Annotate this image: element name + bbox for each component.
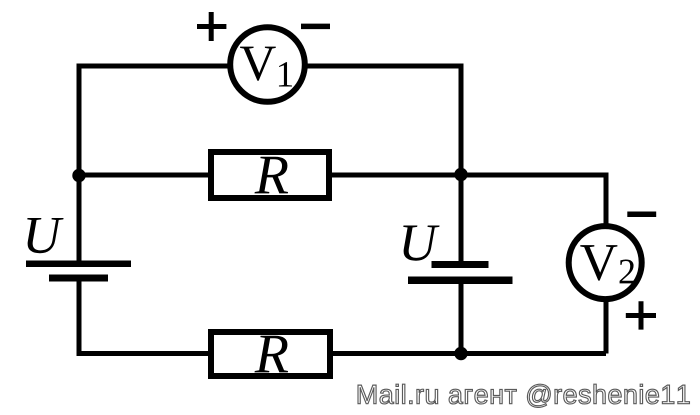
junction node left (middle wire meets left vertical) [72, 169, 85, 182]
battery U (left) short negative plate [49, 275, 108, 282]
minus sign at V1 [301, 24, 330, 30]
wire right battery to bottom wire [459, 280, 464, 354]
voltmeter V2 label V [580, 245, 617, 281]
wire top loop: left vertical, top wire, right vertical [79, 66, 461, 265]
voltmeter V2 label subscript 2 [620, 260, 634, 284]
plus sign at V1 [197, 12, 226, 41]
wire left battery to bottom wire [79, 278, 606, 354]
voltmeter V1 label V [240, 47, 276, 81]
resistor R1 (middle) label R [255, 157, 289, 194]
voltmeter V1 label subscript 1 [279, 62, 292, 86]
battery U (left) label [27, 218, 63, 253]
resistor R2 (bottom) body [211, 332, 330, 376]
watermark Mail.ru agent @reshenie11 [358, 384, 689, 407]
voltmeter V1 circle [230, 27, 305, 102]
battery U (right) short negative plate [432, 261, 489, 268]
junction node bottom (bottom wire meets right vertical) [454, 347, 467, 360]
wire middle row and V2 branch [79, 175, 606, 354]
resistor R1 (middle) body [211, 152, 329, 198]
junction node right (middle wire meets right vertical) [454, 168, 467, 181]
battery U (right) long positive plate [408, 277, 513, 285]
resistor R2 (bottom) label R [255, 336, 289, 373]
minus sign at V2 [627, 212, 656, 218]
battery U (left) long positive plate [26, 261, 131, 268]
voltmeter V2 circle [569, 226, 642, 299]
battery U (right) label [403, 226, 439, 261]
plus sign at V2 [626, 301, 656, 329]
